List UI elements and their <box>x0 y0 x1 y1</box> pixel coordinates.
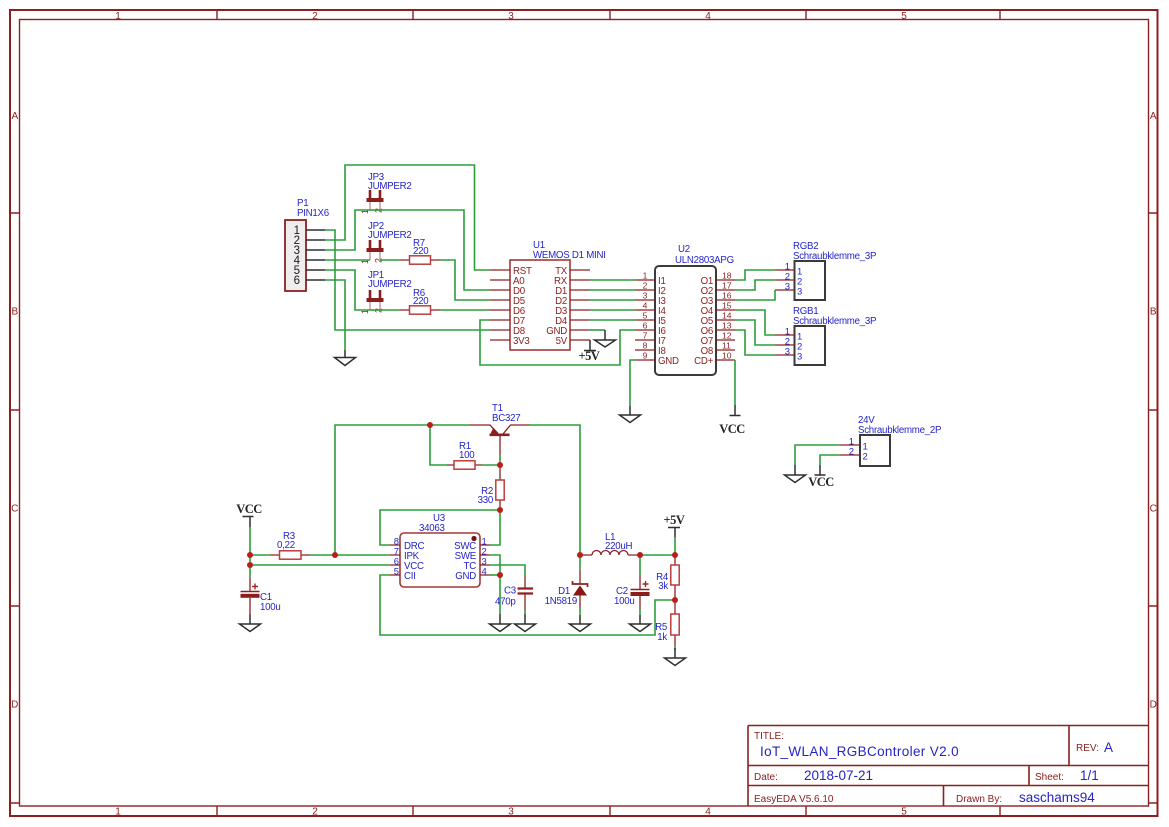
wire JP3 pins <box>370 209 380 211</box>
svg-text:100u: 100u <box>614 596 635 607</box>
wire U3 SWE to ground rail <box>490 555 500 614</box>
wire U1 D4 to U2 I5 <box>590 319 635 321</box>
wire U1 RX to U2 I1 <box>590 279 635 281</box>
connector RGB2 Schraubklemme_3P <box>775 241 876 300</box>
svg-text:1: 1 <box>115 807 121 818</box>
svg-text:15: 15 <box>722 301 732 311</box>
svg-text:13: 13 <box>722 321 732 331</box>
svg-text:A: A <box>11 111 18 122</box>
jumper JP1 JUMPER2 <box>360 270 411 314</box>
svg-text:330: 330 <box>478 495 494 506</box>
svg-text:3V3: 3V3 <box>513 336 530 347</box>
svg-text:220uH: 220uH <box>605 541 633 552</box>
svg-text:1k: 1k <box>657 632 667 643</box>
diode D1 1N5819 (schottky) <box>545 555 588 615</box>
wire R2 bottom to U3 SWC <box>490 510 500 545</box>
IC U3 34063 <box>390 513 490 587</box>
ground symbol below U2 <box>620 406 641 423</box>
junction R3/T1 emitter branch <box>332 552 338 558</box>
wire VCC node down to C1 <box>249 555 251 578</box>
wire T1 emitter branch vertical <box>335 425 470 555</box>
jumper JP3 JUMPER2 <box>360 172 411 214</box>
svg-text:4: 4 <box>705 807 711 818</box>
resistor R4 3k (vertical) <box>656 555 679 600</box>
svg-text:17: 17 <box>722 281 732 291</box>
resistor R2 330 (vertical) <box>478 465 505 510</box>
svg-text:IoT_WLAN_RGBControler V2.0: IoT_WLAN_RGBControler V2.0 <box>760 744 959 759</box>
svg-text:JUMPER2: JUMPER2 <box>368 230 411 241</box>
frame column numbers top <box>115 11 907 22</box>
power VCC at 24V pin2 <box>808 465 834 489</box>
svg-text:3k: 3k <box>658 581 668 592</box>
svg-text:C: C <box>1150 504 1157 515</box>
ground symbol below C2 <box>630 615 651 632</box>
wire VCC to R3 row <box>249 527 251 555</box>
svg-text:4: 4 <box>643 301 648 311</box>
wire U1 D3 to U2 I4 <box>590 309 635 311</box>
U3 right pins 1,2,3,4 <box>480 545 490 575</box>
frame column ticks bottom <box>217 807 1000 817</box>
svg-text:5V: 5V <box>556 336 568 347</box>
svg-text:GND: GND <box>455 571 476 582</box>
wire U1 GND to ground <box>590 329 605 331</box>
power VCC below U2 CD+ <box>719 405 745 436</box>
U2 right pins 18-10 <box>716 280 735 360</box>
wire +5V to R4 junction <box>674 537 676 555</box>
svg-text:+5V: +5V <box>664 513 685 527</box>
svg-text:8: 8 <box>643 341 648 351</box>
svg-text:1: 1 <box>115 11 121 22</box>
wire U3 GND pin to rail <box>490 574 500 576</box>
wire U3 TC to C3 <box>490 565 525 575</box>
junction R2 bottom / SWC <box>497 507 503 513</box>
svg-text:3: 3 <box>785 347 790 358</box>
wire R2 bottom to U3 DRC <box>380 510 500 545</box>
svg-text:2: 2 <box>312 11 318 22</box>
capacitor C3 470p <box>495 575 533 614</box>
ground symbol below U3 SWE/GND <box>490 614 511 632</box>
wire junction down to R1 <box>430 425 447 465</box>
svg-text:100u: 100u <box>260 602 281 613</box>
capacitor C2 100u <box>614 555 650 615</box>
junction R4/R5 feedback node <box>672 597 678 603</box>
svg-text:D: D <box>11 700 18 711</box>
svg-text:470p: 470p <box>495 597 516 608</box>
wire C2 junction to +5V/R4 <box>640 554 675 556</box>
svg-text:EasyEDA V5.6.10: EasyEDA V5.6.10 <box>754 794 834 805</box>
wire P1 pin2 to U1 RST <box>325 165 490 270</box>
svg-text:B: B <box>1150 307 1157 318</box>
svg-text:1: 1 <box>643 271 648 281</box>
wire U2 O4 to RGB1 pin1 <box>735 310 775 335</box>
svg-text:+5V: +5V <box>579 349 600 363</box>
svg-text:1N5819: 1N5819 <box>545 596 577 607</box>
svg-text:saschams94: saschams94 <box>1019 790 1095 805</box>
svg-text:0,22: 0,22 <box>277 540 295 551</box>
svg-text:Sheet:: Sheet: <box>1035 772 1064 783</box>
U1 left pins <box>490 270 510 340</box>
ground symbol below P1 <box>335 350 356 366</box>
svg-text:3: 3 <box>797 352 802 363</box>
svg-text:C: C <box>11 504 18 515</box>
svg-text:JUMPER2: JUMPER2 <box>368 181 411 192</box>
resistor R6 220 <box>400 288 440 314</box>
svg-text:3: 3 <box>785 282 790 293</box>
wire JP2 pin2 to R7 <box>380 259 400 261</box>
power VCC feeding regulator <box>236 502 262 528</box>
connector RGB1 Schraubklemme_3P <box>775 306 876 365</box>
svg-text:9: 9 <box>643 351 648 361</box>
svg-text:4: 4 <box>482 567 487 578</box>
svg-text:GND: GND <box>658 356 679 367</box>
svg-text:5: 5 <box>643 311 648 321</box>
P1 pins 1-6 <box>306 230 325 280</box>
wire R1 to T1 base node <box>482 464 500 466</box>
wire U2 O6 to RGB1 pin3 <box>735 330 775 355</box>
svg-text:3: 3 <box>508 11 514 22</box>
svg-text:12: 12 <box>722 331 732 341</box>
junction L1 / C2 <box>637 552 643 558</box>
svg-text:1/1: 1/1 <box>1080 768 1099 783</box>
svg-text:CD+: CD+ <box>694 356 713 367</box>
wire U1 D2 to U2 I3 <box>590 299 635 301</box>
wire U1 D7 to U2 I6 <box>480 320 635 365</box>
ground symbol at U1 GND <box>595 330 616 347</box>
resistor R5 1k (vertical) <box>655 600 679 650</box>
connector P1 PIN1X6 <box>285 198 329 291</box>
wire R7 to U1 D5 <box>440 260 491 300</box>
U3 left pins 8,7,6,5 <box>390 545 400 575</box>
svg-text:10: 10 <box>722 351 732 361</box>
capacitor C1 100u <box>241 578 281 614</box>
junction U3 GND pin <box>497 572 503 578</box>
junction T1 base / R2 <box>497 462 503 468</box>
svg-text:100: 100 <box>459 450 475 461</box>
transistor T1 BC327 (PNP) <box>470 403 530 455</box>
wire U2 O3 to RGB2 pin3 <box>735 290 775 300</box>
power +5V at U1 5V pin <box>579 340 600 363</box>
wire VCC row to U3 VCC pin <box>250 564 390 566</box>
resistor R7 220 <box>400 238 440 264</box>
wire P1 pin1 to U1 D8 <box>325 230 490 330</box>
frame row ticks right <box>1149 213 1158 803</box>
svg-text:18: 18 <box>722 271 732 281</box>
wire 24V pin2 to VCC <box>820 455 840 465</box>
wire JP1 pin2 to R6 <box>380 309 400 311</box>
svg-text:5: 5 <box>394 567 399 578</box>
svg-text:CII: CII <box>404 571 416 582</box>
wire P1 pin6 to ground <box>325 280 345 350</box>
svg-text:3: 3 <box>508 807 514 818</box>
inductor L1 220uH <box>580 532 640 555</box>
svg-text:ULN2803APG: ULN2803APG <box>675 255 734 266</box>
svg-text:BC327: BC327 <box>492 413 520 424</box>
frame row ticks left <box>10 213 20 803</box>
svg-text:2: 2 <box>643 281 648 291</box>
svg-text:6: 6 <box>643 321 648 331</box>
svg-text:D: D <box>1150 700 1157 711</box>
connector 24V Schraubklemme_2P <box>840 415 941 466</box>
frame column numbers bottom <box>115 807 907 818</box>
title block lines <box>748 726 1149 807</box>
resistor R1 100 <box>447 441 482 469</box>
svg-text:14: 14 <box>722 311 732 321</box>
wire 24V pin1 to ground <box>795 445 840 465</box>
wire U2 GND to ground <box>630 360 635 406</box>
svg-text:2018-07-21: 2018-07-21 <box>804 768 873 783</box>
svg-text:3: 3 <box>643 291 648 301</box>
ground symbol below C1 <box>240 614 261 632</box>
svg-text:2: 2 <box>312 807 318 818</box>
svg-text:Drawn By:: Drawn By: <box>956 794 1002 805</box>
svg-text:4: 4 <box>705 11 711 22</box>
svg-text:5: 5 <box>901 11 907 22</box>
wire U3 CII to R4/R5 node <box>380 575 675 635</box>
wire R6 to U1 D6 <box>440 309 491 311</box>
U1 right pins <box>570 270 590 340</box>
svg-text:JUMPER2: JUMPER2 <box>368 279 411 290</box>
svg-text:B: B <box>11 307 18 318</box>
junction VCC/R3 <box>247 552 253 558</box>
wire JP1 pins <box>370 309 380 311</box>
wire P1 pin4 to JP2 pin1 <box>325 259 370 261</box>
wire U2 CD+ to VCC <box>734 360 736 405</box>
resistor R3 0,22 <box>270 531 310 559</box>
ground symbol below C3 <box>515 614 536 632</box>
wire U2 O1 to RGB2 pin1 <box>735 270 775 280</box>
wire T1 base to junction <box>499 455 501 465</box>
jumper JP2 JUMPER2 <box>360 221 411 264</box>
svg-text:7: 7 <box>643 331 648 341</box>
wire U1 D1 to U2 I2 <box>590 289 635 291</box>
svg-text:A: A <box>1104 740 1113 755</box>
svg-text:VCC: VCC <box>808 475 834 489</box>
ground symbol at 24V pin1 <box>785 465 806 483</box>
junction R4 top <box>672 552 678 558</box>
svg-text:3: 3 <box>797 287 802 298</box>
wire U2 O2 to RGB2 pin2 <box>735 280 775 290</box>
wire JP3 pin2 to U1 D0 <box>380 210 490 290</box>
svg-text:VCC: VCC <box>236 502 262 516</box>
svg-text:TITLE:: TITLE: <box>754 731 784 742</box>
wire U2 O5 to RGB1 pin2 <box>735 320 775 345</box>
svg-text:2: 2 <box>849 447 854 458</box>
junction R1 branch <box>427 422 433 428</box>
svg-text:5: 5 <box>901 807 907 818</box>
junction VCC/pin6 row <box>247 562 253 568</box>
wire T1 collector to switch node <box>530 425 580 555</box>
ground symbol below D1 <box>570 615 591 632</box>
IC U1 WEMOS D1 MINI <box>490 240 606 350</box>
IC U2 ULN2803APG <box>635 244 735 375</box>
U3 pin1 dot <box>471 536 476 541</box>
power +5V output <box>664 513 685 538</box>
svg-text:6: 6 <box>294 275 300 287</box>
svg-text:U2: U2 <box>678 244 690 255</box>
svg-text:REV:: REV: <box>1076 743 1099 754</box>
svg-text:PIN1X6: PIN1X6 <box>297 208 329 219</box>
svg-text:A: A <box>1150 111 1157 122</box>
svg-text:Date:: Date: <box>754 772 778 783</box>
wire P1 pin3 to JP3 pin1 <box>325 210 370 250</box>
wire P1 pin5 to JP1 pin1 <box>325 270 370 310</box>
U2 left pins 1-9 <box>635 280 655 360</box>
svg-text:VCC: VCC <box>719 422 745 436</box>
svg-text:C3: C3 <box>504 586 516 597</box>
svg-text:2: 2 <box>863 452 868 463</box>
frame column ticks top <box>217 10 1000 20</box>
wire R3 to U3 IPK <box>310 554 390 556</box>
junction switch node / D1 / L1 <box>577 552 583 558</box>
svg-text:16: 16 <box>722 291 732 301</box>
ground symbol below R5 <box>665 648 686 666</box>
frame row letters left <box>11 111 18 711</box>
frame row letters right <box>1150 111 1157 711</box>
svg-text:11: 11 <box>722 341 731 351</box>
wire VCC junction to R3 <box>250 554 270 556</box>
